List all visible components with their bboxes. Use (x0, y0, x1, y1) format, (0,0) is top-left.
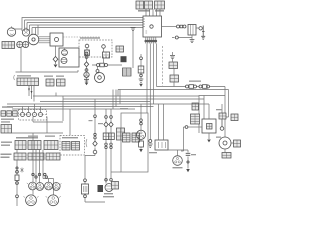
wire top conns to CDI (146, 9, 160, 16)
connector C9 (234, 140, 241, 147)
wire dashed divider x162 (162, 46, 164, 86)
wire x120 drop (119, 90, 121, 105)
label tail lamp (173, 167, 183, 168)
chain x141 upper (138, 54, 144, 87)
wire starter links (222, 119, 234, 143)
wire pickup stub (12, 27, 22, 30)
node horn top (96, 70, 99, 73)
wire bus top line4 (30, 25, 144, 33)
engine stop switch box (59, 48, 79, 67)
bracket marks right of dashed box (86, 139, 87, 147)
node horn cluster bullets (105, 179, 113, 182)
wire box A inner vertical (203, 96, 205, 120)
connector 4P A (2, 42, 15, 49)
headlight lamp L5 (23, 195, 38, 206)
resistor x17 (15, 175, 19, 181)
wire bus y96 (33, 93, 199, 97)
wire CDI drop 2 (149, 44, 151, 140)
node lamp bullets (32, 173, 48, 178)
wire mid drop x70 (69, 109, 71, 135)
node x17 bullets (16, 167, 19, 173)
connector left dashed a (62, 142, 70, 151)
tail lamp L7 (173, 150, 183, 165)
horn H1 (95, 67, 105, 83)
node relay left bullet (185, 126, 188, 129)
main switch contacts (19, 104, 47, 117)
connector C6 stack (191, 114, 200, 124)
node coil bullets (177, 25, 187, 28)
arrow end x141 (139, 149, 143, 152)
wire bus y106 (7, 106, 154, 108)
turn signal lamp L2 (36, 183, 44, 191)
connector C8 (231, 114, 238, 121)
label starter (216, 137, 221, 138)
wire CDI drop 3 (153, 44, 155, 105)
chain x150 end (148, 140, 153, 148)
label text top connectors (138, 10, 164, 12)
wire CDI bottom pins (146, 37, 156, 44)
wire strip drops (28, 86, 34, 102)
label horn cluster (103, 193, 114, 197)
wire CDI drop 4 (156, 44, 158, 87)
bulb x86 (84, 72, 89, 77)
rectifier regulator R1 (50, 33, 63, 46)
wire drop x36 (35, 150, 37, 183)
wire bus top line3 (27, 23, 143, 32)
label row1 (16, 137, 38, 139)
node x141 bullets (140, 119, 143, 125)
resistor center (139, 141, 144, 147)
wire bus y104 (7, 103, 209, 105)
node x85 bullets (84, 179, 87, 198)
connector top block 2 (155, 1, 165, 9)
connector C5 (192, 103, 199, 110)
capacitor tail (186, 153, 191, 155)
wire x113 drop (112, 90, 114, 110)
wire bus y133 (12, 117, 64, 134)
connector row1 a (15, 141, 26, 150)
wire drop x43 (43, 150, 54, 195)
wire condenser stubs (173, 59, 175, 87)
spark plug PL1 (199, 26, 205, 40)
connector strip 2 (46, 79, 54, 86)
label fuse area (189, 81, 201, 82)
connector mid grid (123, 68, 132, 76)
wire relay top feed (208, 104, 210, 119)
lighting switch box (103, 52, 110, 58)
wire bus top line1 (22, 18, 143, 32)
wire bus y99 (63, 96, 204, 99)
connector C7 (219, 113, 226, 119)
frame box center (121, 113, 148, 172)
label tail right (191, 154, 196, 155)
connector top block 1 (136, 1, 153, 9)
connector battery block (1, 125, 12, 134)
connector strip 3 (57, 79, 66, 86)
switch box x106 (103, 133, 109, 140)
fuse F1 (92, 58, 122, 67)
node coil ground bullet (175, 36, 178, 39)
rear brake circle (105, 184, 113, 192)
connector C3 (169, 62, 178, 69)
node x111 bullets (110, 116, 113, 149)
diode chain x86 (84, 62, 88, 67)
node tail (187, 161, 189, 163)
node x106 bullets (105, 116, 108, 149)
label strip small texts (28, 76, 222, 154)
node x17 c (16, 195, 19, 198)
wire bus top line2 (25, 20, 144, 31)
wire bus y122 (33, 99, 63, 122)
wire CDI to ignition coil (162, 26, 177, 28)
connector C4 (170, 75, 179, 82)
node x95 bullets (94, 115, 97, 139)
wire conn B down (16, 48, 79, 72)
connector left dashed b (72, 142, 80, 151)
node chain x86 bullets (85, 52, 88, 58)
ground x86 (84, 79, 89, 85)
ground coil (190, 38, 195, 43)
wire clutch chain (86, 56, 88, 84)
connector C1 (116, 46, 124, 52)
connector row1 b (28, 141, 41, 150)
battery box (222, 149, 231, 158)
horn button contact (102, 45, 106, 52)
indicator lamp center (136, 130, 145, 139)
label left column rows (1, 142, 12, 146)
CDI unit U1 (143, 16, 162, 37)
turn signal lamp L1 (27, 182, 38, 190)
wire relay left down (181, 127, 185, 151)
wire x116 drop (115, 90, 117, 107)
main switch dashed box (19, 110, 47, 121)
node x17 b (16, 182, 19, 185)
wire twin chain x106 (105, 109, 107, 184)
label under horn (92, 83, 94, 85)
ground chain under regulator (53, 46, 58, 68)
CDI relay box (202, 119, 216, 133)
wire bus y109 (12, 108, 135, 110)
wire drop x39 (39, 150, 41, 183)
connector horn cluster (112, 182, 119, 190)
wire box A outline (199, 96, 225, 134)
wire coil to plug (196, 27, 199, 29)
wire chain x95 (85, 99, 105, 202)
wire CDI drop 1 (146, 44, 148, 114)
wire y150 bus (155, 150, 188, 153)
wire relay left (188, 126, 202, 128)
connector center grid (117, 128, 125, 140)
handlebar switch dashed box (79, 40, 112, 57)
wire coil ground branch (172, 35, 192, 38)
starter relay SR1 (219, 137, 231, 149)
AC magneto M1 (28, 34, 39, 45)
connector row2 a (14, 153, 26, 160)
headlight lamp L6 (46, 195, 61, 206)
fuse F3 (199, 85, 210, 89)
connector row1 c (44, 141, 58, 150)
ignition coil T1 (188, 25, 196, 36)
node x86 (85, 69, 88, 72)
starter switch dark box (121, 56, 127, 62)
turn signal lamp L4 (52, 183, 61, 191)
node x95 b (93, 150, 97, 154)
source coil P2 (22, 27, 29, 36)
label main switch (1, 106, 14, 122)
wire regulator label line (63, 36, 100, 38)
wire tail drop x188 (187, 157, 189, 169)
connector frame grid b (132, 133, 140, 142)
label left dashed box (62, 137, 78, 138)
wire twin chain x111 (110, 109, 112, 178)
flasher marks (21, 168, 24, 173)
neutral relay dark box (98, 185, 104, 192)
handlebar left dashed box (60, 136, 85, 156)
pickup coil P1 (7, 26, 15, 36)
diode x111 (109, 122, 113, 127)
condenser C2 (170, 52, 175, 59)
wire bus y101 (40, 101, 150, 103)
label row2 left (1, 154, 12, 159)
wire fuse bus y86 (157, 87, 226, 138)
connector tiny row (1, 111, 17, 116)
connector row2 b (28, 153, 44, 160)
connector frame grid a (123, 133, 131, 142)
node CDI pin bullets (145, 40, 157, 42)
diode x95 (93, 141, 97, 146)
switch box x111 (109, 133, 115, 140)
wire drop x17 (16, 150, 18, 207)
wire drop x33 (32, 133, 34, 195)
brake switch box (82, 184, 89, 194)
wire relay bottom arrow (207, 133, 211, 142)
fuse F2 (186, 85, 197, 89)
turn signal lamp L3 (45, 182, 53, 190)
label strip left (17, 75, 31, 76)
dimmer switch contact (85, 44, 90, 55)
fuse box B (155, 104, 168, 150)
label handlebar box (80, 37, 100, 38)
diode x106 (104, 122, 108, 127)
wire y172 link (111, 171, 121, 173)
connector strip main (17, 78, 39, 86)
wire x222 drop (221, 104, 223, 127)
ground near CDI left (131, 28, 136, 69)
connector pair B (17, 41, 29, 47)
wire chain x141 (140, 104, 142, 149)
wire bus top line5 (32, 25, 143, 35)
node x222 (220, 127, 224, 131)
arrow tail (186, 169, 190, 172)
handle connector strip mark (13, 75, 16, 80)
wire bus y89 right (118, 90, 229, 118)
connector row2 c (46, 153, 60, 160)
wire magneto to regulator (39, 37, 50, 43)
